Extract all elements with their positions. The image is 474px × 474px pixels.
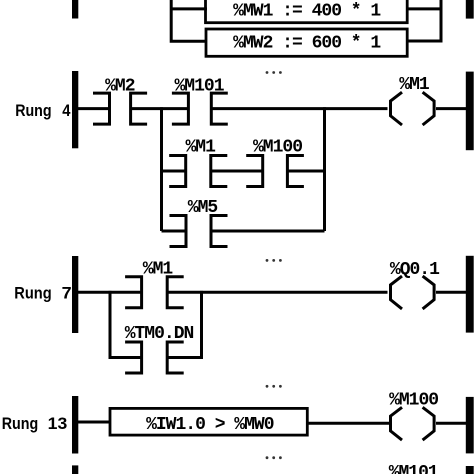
wire: contact %M5 to right branch vertical (row 3) (211, 229, 324, 232)
ellipsis (omitted rungs after 13) (266, 456, 282, 459)
wire: left branch bracket of parallel operation blocks (171, 0, 207, 41)
wire: right branch bracket of parallel operation blocks (407, 0, 441, 41)
wire: %TM0.DN row right (167, 356, 203, 359)
contact %M100 (branch row 2) (246, 137, 304, 188)
wire: coil %M100 to right rail (436, 422, 466, 425)
comparison block %IW1.0 > %MW0 (110, 408, 307, 435)
svg-text:%M101: %M101 (174, 76, 224, 96)
wire: rung 4 rail to contact %M2 (78, 107, 110, 110)
wire: %TM0.DN row left (108, 356, 141, 359)
left power rail (rung 13) (72, 396, 78, 454)
left power rail stub (bottom, next rung partial) (72, 465, 78, 474)
right power rail stub (bottom, next rung partial) (466, 466, 474, 474)
right power rail (rung 7) (466, 256, 474, 333)
operation block %MW1 := 400 * 1 (206, 0, 408, 23)
left power rail stub (top, rung 3 partial) (72, 0, 78, 18)
rung 4 label (15, 101, 71, 120)
svg-text:%M5: %M5 (188, 198, 218, 218)
svg-text:%TM0.DN: %TM0.DN (125, 324, 194, 344)
contact %M5 (branch row 3) (169, 198, 227, 248)
wire: branch row 2 left (162, 169, 186, 172)
svg-text:%M100: %M100 (389, 391, 438, 411)
wire: rung 7 rail to contact %M1 (78, 291, 142, 294)
svg-text:%M1: %M1 (185, 137, 216, 157)
wire: left vertical of parallel branch (rung 4) (160, 107, 163, 231)
svg-text:%M1: %M1 (143, 259, 174, 279)
ellipsis (omitted rungs 5-6) (266, 259, 282, 262)
svg-text:%IW1.0 > %MW0: %IW1.0 > %MW0 (146, 415, 274, 435)
wire: contact %M100 to right branch vertical (287, 170, 324, 173)
svg-text:7: 7 (62, 283, 72, 302)
contact %M1 (rung 7) (125, 259, 184, 309)
right power rail stub (top, rung 3 partial) (466, 0, 474, 19)
svg-text:13: 13 (48, 414, 68, 433)
wire: contact %M1 to coil %Q0.1 (167, 291, 387, 294)
wire: rung 13 rail to comparison block (78, 420, 110, 423)
svg-text:4: 4 (62, 101, 71, 120)
rung 7 label (14, 283, 71, 302)
wire: contact %M2 to contact %M101 (131, 107, 189, 110)
right power rail (rung 13) (466, 397, 474, 454)
wire: coil %Q0.1 to right rail (436, 291, 466, 294)
svg-text:%M1: %M1 (399, 75, 430, 95)
wire: contact %M1 to contact %M100 (branch row 2) (211, 169, 263, 172)
operation block %MW2 := 600 * 1 (206, 29, 407, 56)
coil %Q0.1 (rung 7 output) (390, 260, 440, 309)
wire: right vertical of parallel branch (rung 4) (323, 107, 326, 231)
svg-text:%MW1 := 400 * 1: %MW1 := 400 * 1 (233, 2, 381, 22)
wire: branch row 3 left (162, 229, 187, 232)
left power rail (rung 7) (72, 256, 78, 333)
wire: contact %M101 to coil %M1 (211, 107, 387, 110)
left power rail (rung 4) (72, 71, 78, 148)
svg-text:%M100: %M100 (253, 137, 302, 157)
contact %TM0.DN (125, 324, 194, 374)
rung 13 label (2, 414, 68, 433)
contact %M101 (172, 76, 228, 125)
contact %M2 (93, 76, 147, 125)
coil label %M101 (next rung partial) (389, 463, 439, 474)
svg-text:Rung: Rung (2, 414, 39, 433)
ellipsis (omitted rungs 8-12) (266, 385, 282, 388)
coil %M100 (rung 13 output) (389, 391, 438, 440)
contact %M1 (branch row 2) (169, 137, 227, 188)
wire: comparison block to coil %M100 (308, 422, 390, 425)
wire: coil %M1 to right rail (436, 107, 466, 110)
right power rail (rung 4) (466, 72, 474, 151)
svg-text:%M2: %M2 (105, 76, 135, 96)
svg-text:%MW2 := 600 * 1: %MW2 := 600 * 1 (233, 33, 381, 53)
coil %M1 (rung 4 output) (391, 75, 435, 125)
svg-text:Rung: Rung (14, 283, 51, 302)
wire: right vertical of %TM0.DN branch (200, 291, 203, 358)
svg-text:Rung: Rung (15, 101, 51, 120)
svg-text:%Q0.1: %Q0.1 (390, 260, 440, 280)
svg-text:%M101: %M101 (389, 463, 439, 474)
ellipsis (omitted rungs) (266, 71, 282, 74)
wire: left vertical of %TM0.DN branch (108, 291, 111, 358)
